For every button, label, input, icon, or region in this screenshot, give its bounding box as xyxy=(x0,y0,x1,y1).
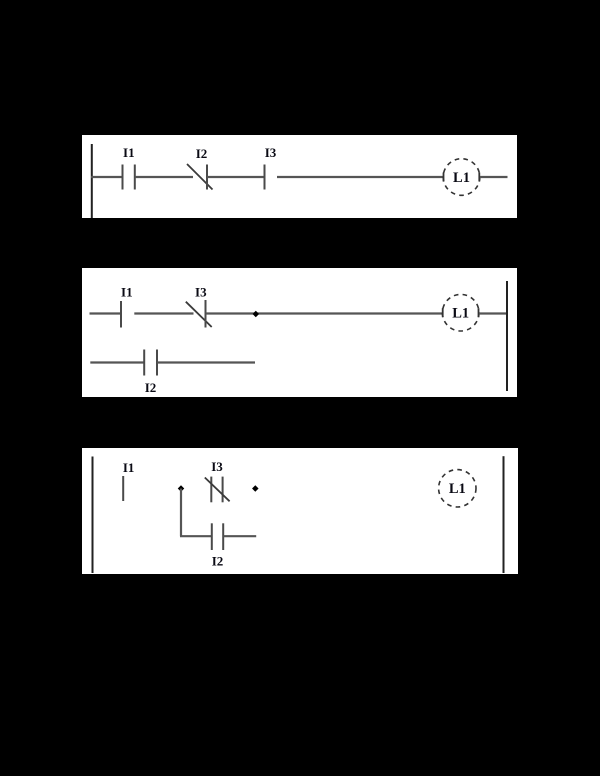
svg-text:I1: I1 xyxy=(121,285,133,300)
svg-text:I1: I1 xyxy=(123,460,135,475)
left power rail xyxy=(92,457,94,574)
wire coil to right rail xyxy=(479,312,507,314)
coil right terminal tick xyxy=(478,308,480,317)
rung 1 panel xyxy=(82,135,517,218)
contact I1 right bar xyxy=(134,165,136,190)
junction node A dot xyxy=(178,485,185,492)
contact I3 bar xyxy=(205,300,207,328)
right power rail xyxy=(503,456,505,573)
svg-text:L1: L1 xyxy=(449,481,466,497)
contact I2 bar xyxy=(206,165,208,190)
wire branch right segment xyxy=(157,361,255,363)
contact I3 right bar xyxy=(222,477,224,503)
wire I3 to coil xyxy=(206,312,443,314)
svg-text:I3: I3 xyxy=(265,145,277,160)
contact I1 bar xyxy=(122,476,124,501)
svg-text:I1: I1 xyxy=(123,145,135,160)
coil right terminal tick xyxy=(478,173,480,182)
contact I3 slash xyxy=(186,302,212,327)
contact I3 slash xyxy=(205,478,230,502)
svg-text:I2: I2 xyxy=(196,146,208,161)
svg-text:I3: I3 xyxy=(211,459,223,474)
contact I2 slash xyxy=(187,164,213,190)
svg-text:L1: L1 xyxy=(453,170,470,186)
wire I1 to I2 xyxy=(135,176,193,178)
contact I2 right bar xyxy=(156,350,158,376)
right power rail xyxy=(506,281,508,391)
left power rail xyxy=(91,144,93,218)
contact I3 left bar xyxy=(210,477,212,503)
rung 3 panel xyxy=(82,448,518,574)
wire branch vertical xyxy=(180,489,182,537)
contact I2 left bar xyxy=(211,523,213,550)
coil left terminal tick xyxy=(443,173,445,182)
junction dot xyxy=(253,311,260,318)
svg-text:I2: I2 xyxy=(212,554,224,569)
rung 2 panel xyxy=(82,268,517,397)
coil L1 circle xyxy=(439,470,476,507)
contact I1 left bar xyxy=(122,165,124,190)
wire I3 to coil xyxy=(277,176,443,178)
wire left to I1 xyxy=(90,312,122,314)
wire I2 to I3 xyxy=(207,176,264,178)
contact I2 left bar xyxy=(143,350,145,376)
wire branch left segment xyxy=(90,361,144,363)
contact I1 bar xyxy=(120,301,122,328)
wire coil to right xyxy=(480,176,508,178)
coil L1 circle xyxy=(443,159,480,196)
wire I1 to I3 xyxy=(134,312,193,314)
coil L1 circle xyxy=(442,294,479,331)
wire rail to I1 xyxy=(91,176,123,178)
contact I3 bar xyxy=(264,165,266,190)
wire branch left segment xyxy=(180,535,212,537)
coil left terminal tick xyxy=(442,308,444,317)
wire branch right segment xyxy=(223,535,256,537)
junction node B dot xyxy=(252,485,259,492)
svg-text:I2: I2 xyxy=(145,380,157,395)
contact I2 right bar xyxy=(222,523,224,550)
svg-text:I3: I3 xyxy=(195,285,207,300)
svg-text:L1: L1 xyxy=(452,306,469,322)
